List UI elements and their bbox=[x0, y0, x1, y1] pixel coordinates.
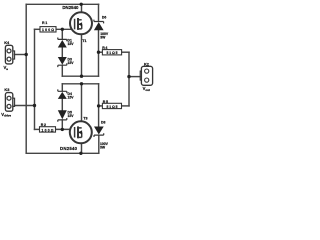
svg-text:3W: 3W bbox=[100, 146, 106, 150]
resistor R2 100 ohm bbox=[40, 123, 56, 132]
svg-text:15V: 15V bbox=[68, 96, 75, 100]
zener diode D4 15V bbox=[58, 89, 74, 99]
svg-text:K3: K3 bbox=[4, 87, 10, 92]
wire T1 source down to rail A bbox=[81, 29, 83, 76]
wire rail B down to R5 and D8 bbox=[98, 84, 100, 127]
resistor R4 51 ohm bbox=[102, 46, 121, 55]
zener diode D5 15V bbox=[58, 110, 74, 122]
wire T3 source to bottom rail bbox=[81, 137, 83, 153]
connector K2 Vout bbox=[140, 62, 152, 92]
node junction dot R5 left bbox=[97, 104, 100, 107]
zener diode D3 15V bbox=[58, 57, 74, 67]
wire T3 drain from rail B bbox=[81, 84, 83, 128]
wire R1 right lead to T1 gate bbox=[56, 28, 75, 30]
svg-text:R1: R1 bbox=[42, 21, 47, 25]
svg-text:K4: K4 bbox=[4, 40, 10, 45]
node junction dot K4 bbox=[25, 53, 28, 56]
node junction dot T3 gate bbox=[61, 128, 64, 131]
node junction dot T1 source on rail A bbox=[80, 75, 83, 78]
wire K4 to left rail bbox=[15, 54, 27, 56]
wire gate drive rail bbox=[34, 29, 36, 129]
svg-text:100Ω: 100Ω bbox=[42, 128, 54, 132]
wire rail B to D4 bbox=[61, 84, 63, 91]
svg-text:51Ω5: 51Ω5 bbox=[107, 51, 118, 55]
wire D8 bottom lead to bottom rail bbox=[98, 136, 100, 154]
zener diode D1 15V bbox=[58, 38, 74, 48]
svg-text:T3: T3 bbox=[83, 117, 87, 121]
svg-text:Va: Va bbox=[4, 65, 9, 71]
wire D1-D3 link bbox=[61, 48, 63, 58]
wire R4 right lead bbox=[122, 51, 129, 53]
zener diode D6 100V 3W bbox=[94, 15, 109, 39]
svg-text:D6: D6 bbox=[102, 15, 106, 19]
wire R2 left lead bbox=[35, 128, 40, 130]
connector K3 Vdrive bbox=[1, 87, 14, 117]
wire bottom rail bbox=[26, 152, 99, 154]
transistor T1 DN2540 depletion MOSFET bbox=[70, 12, 92, 43]
wire rail A (T1 source rail) bbox=[62, 75, 98, 77]
node junction dot T1 gate bbox=[61, 28, 64, 31]
wire left supply rail bbox=[25, 4, 27, 153]
svg-text:DN2540: DN2540 bbox=[62, 5, 79, 10]
wire R5 left lead bbox=[99, 105, 103, 107]
resistor R1 100 ohm bbox=[40, 21, 56, 32]
wire D6 top lead from top rail bbox=[98, 4, 100, 21]
wire top rail bbox=[26, 3, 98, 5]
svg-text:DN2540: DN2540 bbox=[60, 146, 78, 151]
wire T1 drain bbox=[81, 4, 83, 19]
node junction dot K2 output bbox=[127, 75, 130, 78]
svg-text:15V: 15V bbox=[68, 42, 75, 46]
transistor T3 DN2540 depletion MOSFET bbox=[70, 117, 92, 144]
wire D1 top lead bbox=[61, 29, 63, 39]
wire rail B (T3 drain rail) bbox=[62, 83, 98, 85]
connector K4 Va bbox=[4, 40, 15, 71]
svg-text:51Ω5: 51Ω5 bbox=[107, 105, 118, 109]
wire to K2 bbox=[129, 76, 140, 78]
zener diode D8 100V 3W bbox=[94, 121, 109, 150]
node junction dot R4 left bbox=[97, 51, 100, 54]
wire R1 left lead bbox=[35, 28, 41, 30]
svg-text:15V: 15V bbox=[68, 114, 75, 118]
wire D4-D5 link bbox=[61, 99, 63, 110]
svg-text:R5: R5 bbox=[103, 100, 108, 104]
wire R5 right lead bbox=[122, 105, 130, 107]
wire R2 right lead to T3 gate bbox=[56, 128, 75, 130]
wire D6 bottom lead to rail A bbox=[98, 31, 100, 77]
svg-text:R4: R4 bbox=[102, 46, 107, 50]
wire D5 to R2 node bbox=[61, 120, 63, 129]
node junction dot T3 drain on rail B bbox=[80, 82, 83, 85]
node junction dot K3 bbox=[33, 104, 36, 107]
svg-text:3W: 3W bbox=[100, 35, 106, 39]
svg-text:K2: K2 bbox=[144, 62, 150, 67]
svg-text:15V: 15V bbox=[68, 61, 75, 65]
svg-text:T1: T1 bbox=[82, 39, 86, 43]
wire K3 to gate rail bbox=[15, 105, 35, 107]
node junction dot T1 drain on top rail bbox=[80, 3, 83, 6]
svg-text:R2: R2 bbox=[41, 123, 46, 127]
svg-text:Vdrive: Vdrive bbox=[1, 112, 11, 118]
wire R4-R5 link bbox=[128, 52, 130, 106]
wire D3 to rail A bbox=[61, 65, 63, 76]
resistor R5 51 ohm bbox=[102, 100, 121, 109]
wire R4 left lead bbox=[99, 51, 103, 53]
svg-text:100Ω: 100Ω bbox=[42, 28, 54, 32]
svg-text:D8: D8 bbox=[101, 121, 105, 125]
node junction dot T3 source on bottom rail bbox=[79, 152, 82, 155]
svg-text:Vout: Vout bbox=[143, 86, 150, 92]
